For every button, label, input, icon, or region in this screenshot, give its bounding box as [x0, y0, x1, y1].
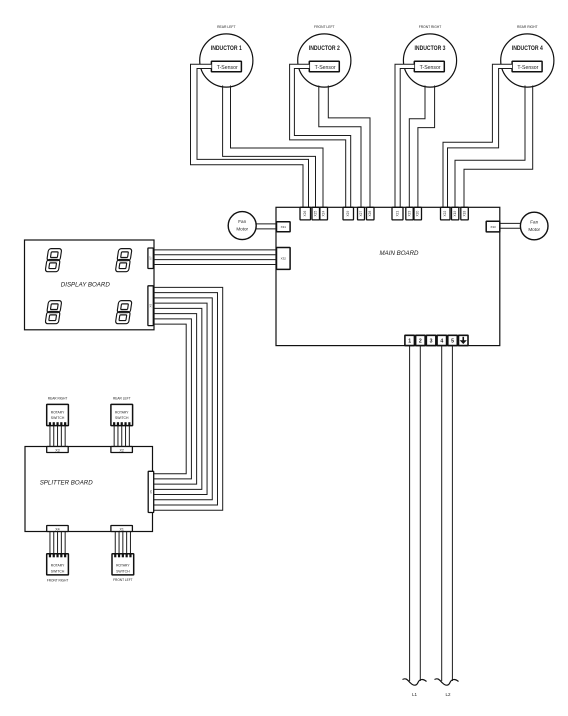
svg-text:X2: X2 — [119, 448, 123, 452]
svg-text:SWITCH: SWITCH — [115, 416, 129, 420]
svg-text:X33: X33 — [490, 225, 496, 229]
svg-text:FRONT RIGHT: FRONT RIGHT — [47, 579, 69, 583]
svg-text:X20: X20 — [416, 211, 420, 217]
svg-text:INDUCTOR 3: INDUCTOR 3 — [415, 45, 446, 52]
svg-text:T-Sensor: T-Sensor — [217, 65, 238, 71]
svg-text:X28: X28 — [368, 211, 372, 217]
svg-text:L1: L1 — [412, 692, 418, 697]
svg-text:Fan: Fan — [530, 220, 538, 225]
svg-text:X27: X27 — [359, 211, 363, 217]
svg-text:5: 5 — [451, 339, 454, 345]
svg-text:T-Sensor: T-Sensor — [420, 65, 441, 71]
svg-text:1: 1 — [408, 339, 411, 345]
svg-text:INDUCTOR 4: INDUCTOR 4 — [512, 45, 543, 52]
svg-text:REAR RIGHT: REAR RIGHT — [48, 397, 68, 401]
svg-text:X26: X26 — [303, 211, 307, 217]
svg-text:4: 4 — [440, 339, 443, 345]
svg-text:ROTARY: ROTARY — [51, 564, 65, 568]
svg-text:X5: X5 — [149, 490, 153, 494]
svg-text:SPLITTER BOARD: SPLITTER BOARD — [40, 479, 93, 486]
svg-text:SWITCH: SWITCH — [51, 570, 65, 574]
svg-text:ROTARY: ROTARY — [115, 410, 129, 414]
svg-text:X24: X24 — [322, 211, 326, 217]
svg-text:X1: X1 — [119, 527, 123, 531]
svg-text:Fan: Fan — [238, 219, 246, 224]
svg-text:X3: X3 — [55, 448, 59, 452]
svg-text:X23: X23 — [408, 211, 412, 217]
svg-text:L2: L2 — [445, 692, 451, 697]
svg-text:X31: X31 — [281, 225, 287, 229]
svg-text:FRONT RIGHT: FRONT RIGHT — [419, 25, 442, 29]
svg-text:SWITCH: SWITCH — [51, 416, 65, 420]
svg-text:REAR LEFT: REAR LEFT — [217, 25, 236, 29]
svg-text:DISPLAY BOARD: DISPLAY BOARD — [61, 281, 110, 288]
svg-text:Motor: Motor — [236, 226, 248, 231]
svg-text:X7: X7 — [149, 256, 153, 260]
svg-text:X25: X25 — [314, 211, 318, 217]
svg-text:X6: X6 — [149, 304, 153, 308]
svg-text:MAIN BOARD: MAIN BOARD — [380, 250, 419, 257]
svg-text:X21: X21 — [396, 211, 400, 217]
svg-text:3: 3 — [430, 339, 433, 345]
svg-text:INDUCTOR 1: INDUCTOR 1 — [211, 45, 242, 52]
svg-text:FRONT LEFT: FRONT LEFT — [314, 25, 335, 29]
svg-text:REAR RIGHT: REAR RIGHT — [517, 25, 538, 29]
svg-text:ROTARY: ROTARY — [51, 410, 65, 414]
svg-text:REAR LEFT: REAR LEFT — [113, 397, 131, 401]
svg-text:T-Sensor: T-Sensor — [315, 65, 336, 71]
svg-text:X32: X32 — [281, 257, 287, 261]
svg-text:FRONT LEFT: FRONT LEFT — [113, 578, 133, 582]
svg-text:X19: X19 — [453, 211, 457, 217]
svg-text:X29: X29 — [346, 211, 350, 217]
svg-text:ROTARY: ROTARY — [116, 564, 130, 568]
svg-text:T-Sensor: T-Sensor — [517, 65, 538, 71]
svg-text:X22: X22 — [443, 211, 447, 217]
svg-text:2: 2 — [419, 339, 422, 345]
svg-text:Motor: Motor — [528, 227, 540, 232]
svg-text:X18: X18 — [463, 211, 467, 217]
svg-text:X4: X4 — [55, 527, 59, 531]
svg-text:INDUCTOR 2: INDUCTOR 2 — [309, 45, 340, 52]
svg-text:SWITCH: SWITCH — [116, 570, 130, 574]
